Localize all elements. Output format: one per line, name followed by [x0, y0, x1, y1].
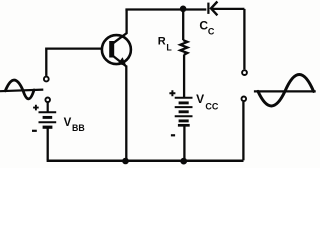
wire: VCC to rail [183, 125, 185, 160]
wire: RL top stem [182, 9, 184, 40]
battery VCC minus sign [171, 134, 175, 136]
node: input terminal top (open circle) [44, 77, 49, 82]
node: output terminal top (open circle) [242, 70, 247, 75]
output sine axis line [254, 90, 316, 92]
svg-text:V: V [196, 92, 204, 106]
wire: terminal to VBB battery [47, 102, 49, 112]
node: output terminal bottom (open circle) [242, 97, 247, 102]
wire: top rail right segment [212, 8, 245, 10]
battery VCC plate long 2 [175, 106, 193, 108]
transistor Q1 emitter arrow [118, 57, 127, 66]
svg-text:C: C [208, 27, 215, 37]
svg-text:BB: BB [72, 123, 85, 133]
wire: emitter vertical to rail [125, 66, 127, 161]
input sine axis line [0, 90, 43, 92]
battery VBB plus sign [33, 105, 39, 111]
transistor Q1 base bar [109, 41, 114, 58]
wire: output vertical drop [243, 9, 245, 69]
capacitor CC curved plate [211, 2, 217, 16]
svg-text:L: L [166, 42, 172, 52]
wire: RL bottom stem to VCC [183, 55, 185, 98]
node: input terminal bottom (open circle) [45, 98, 50, 103]
wire: input top vertical [45, 48, 47, 76]
svg-text:R: R [158, 35, 166, 47]
svg-text:CC: CC [205, 101, 218, 111]
wire: top rail left segment [125, 8, 206, 10]
wire: base lead horizontal [45, 47, 101, 49]
battery VCC plate short 2 [179, 110, 189, 113]
wire: VBB to ground rail [47, 128, 49, 160]
node: junction dot emitter-rail [122, 158, 129, 165]
battery VBB plate short 1 [43, 116, 53, 119]
transistor Q1 emitter lead [113, 56, 127, 67]
battery VCC plate short 3 [179, 119, 189, 122]
battery VBB plate short 2 [43, 126, 53, 129]
battery VCC plate long 1 [175, 97, 193, 99]
resistor RL zigzag [180, 40, 187, 55]
battery VCC plate short 1 [179, 101, 189, 104]
node: junction dot top (RL tap) [180, 6, 187, 13]
battery VCC bottom plate [178, 124, 190, 127]
node: junction dot VCC-rail [180, 158, 187, 165]
battery VBB plate long 2 [39, 121, 57, 123]
output sine wave [258, 74, 314, 106]
transistor Q1 collector lead [113, 10, 127, 44]
wire: bottom ground rail [47, 160, 244, 163]
battery VCC plus sign [169, 90, 175, 96]
wire: output terminal to rail [242, 102, 244, 161]
svg-text:V: V [64, 117, 72, 129]
transistor Q1 circle [102, 35, 131, 64]
capacitor CC straight plate [207, 3, 209, 14]
battery VCC plate long 3 [175, 115, 193, 117]
battery VBB plate long 1 [39, 111, 57, 113]
battery VBB minus sign [32, 130, 37, 132]
input sine wave [5, 80, 34, 99]
